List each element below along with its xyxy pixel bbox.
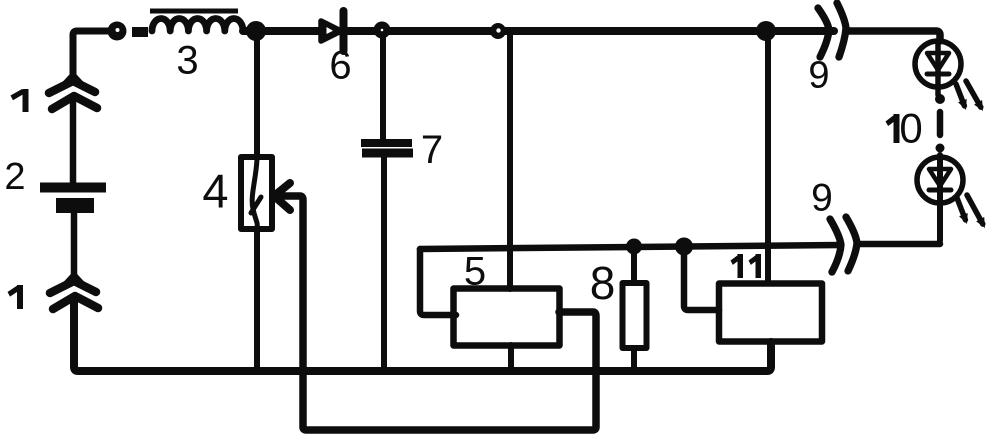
svg-text:7: 7 bbox=[421, 128, 443, 172]
svg-text:9: 9 bbox=[811, 177, 833, 220]
svg-text:2: 2 bbox=[4, 156, 25, 198]
svg-text:5: 5 bbox=[464, 250, 486, 294]
svg-text:4: 4 bbox=[202, 165, 228, 218]
svg-text:3: 3 bbox=[176, 39, 198, 83]
svg-text:0: 0 bbox=[899, 105, 922, 152]
svg-text:8: 8 bbox=[590, 257, 616, 309]
svg-text:6: 6 bbox=[329, 44, 351, 88]
svg-text:9: 9 bbox=[808, 55, 829, 97]
